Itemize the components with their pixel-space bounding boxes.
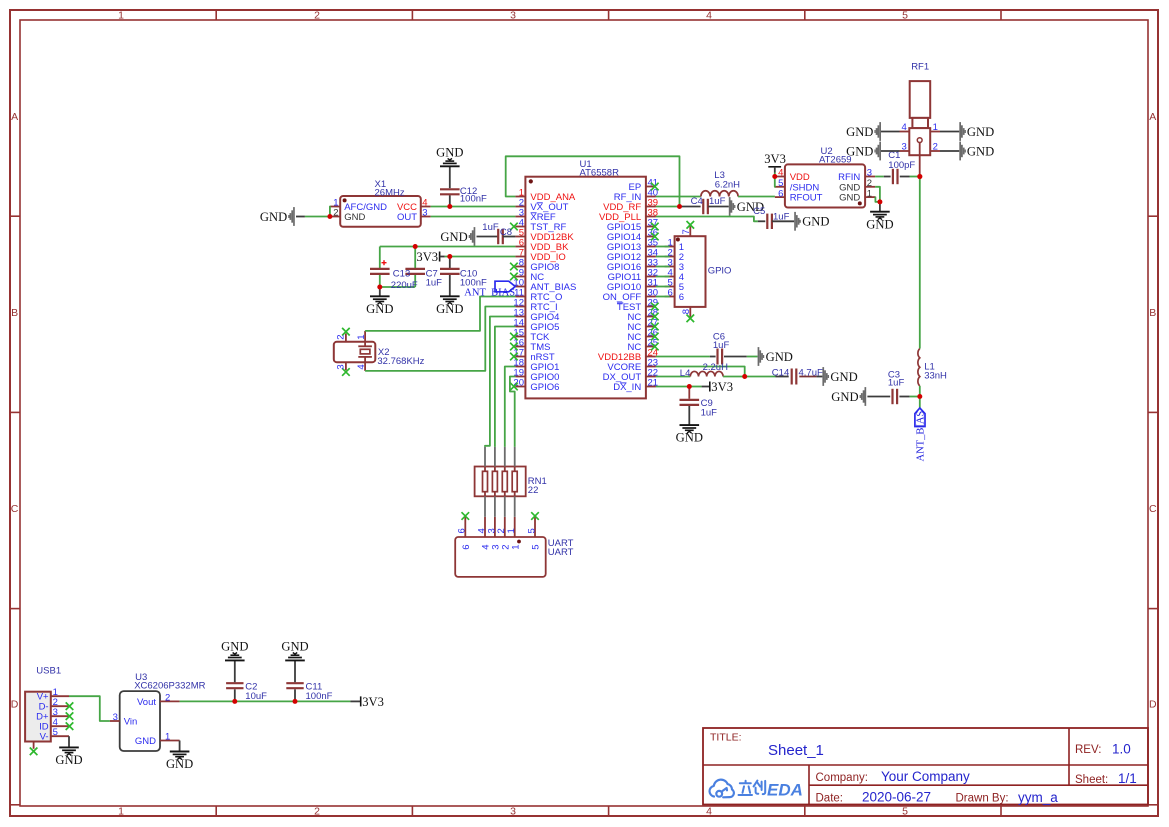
svg-text:6: 6 [461, 545, 472, 550]
svg-text:33nH: 33nH [924, 370, 947, 381]
svg-text:GND: GND [344, 212, 365, 223]
svg-text:GND: GND [831, 390, 858, 404]
svg-text:GND: GND [55, 753, 82, 767]
svg-text:C5: C5 [753, 206, 765, 217]
svg-text:V-: V- [40, 732, 49, 743]
svg-text:AT6558R: AT6558R [580, 168, 620, 179]
svg-text:C: C [11, 503, 19, 515]
svg-text:GND: GND [436, 302, 463, 316]
svg-text:4: 4 [356, 364, 367, 369]
svg-text:1: 1 [933, 122, 938, 133]
svg-text:Sheet:: Sheet: [1075, 774, 1108, 786]
svg-text:UART: UART [548, 547, 574, 558]
svg-text:8: 8 [681, 309, 692, 314]
svg-text:100nF: 100nF [460, 193, 487, 204]
svg-text:GND: GND [830, 370, 857, 384]
svg-text:2: 2 [933, 142, 938, 153]
svg-text:GND: GND [221, 640, 248, 654]
svg-text:2: 2 [314, 9, 320, 21]
svg-text:GND: GND [967, 144, 994, 158]
svg-text:A: A [1149, 111, 1156, 123]
svg-text:1.0: 1.0 [1112, 741, 1131, 756]
svg-text:2020-06-27: 2020-06-27 [862, 790, 931, 805]
svg-text:Date:: Date: [816, 793, 844, 805]
svg-text:USB1: USB1 [36, 665, 61, 676]
svg-text:1uF: 1uF [426, 278, 443, 289]
svg-text:GND: GND [281, 640, 308, 654]
svg-text:2: 2 [165, 693, 170, 704]
svg-text:10uF: 10uF [245, 691, 267, 702]
svg-text:GND: GND [260, 210, 287, 224]
svg-text:32.768KHz: 32.768KHz [377, 356, 424, 367]
svg-text:1uF: 1uF [701, 407, 718, 418]
svg-text:1: 1 [510, 545, 521, 550]
svg-text:Company:: Company: [816, 772, 868, 784]
svg-text:RF1: RF1 [911, 62, 929, 73]
svg-text:100nF: 100nF [306, 691, 333, 702]
svg-text:GND: GND [676, 431, 703, 445]
svg-text:GND: GND [366, 302, 393, 316]
svg-text:Sheet_1: Sheet_1 [768, 742, 824, 759]
svg-text:4: 4 [706, 805, 712, 817]
svg-text:C8: C8 [500, 227, 512, 238]
svg-text:1: 1 [867, 188, 872, 199]
svg-text:1uF: 1uF [773, 212, 790, 223]
svg-text:1: 1 [506, 528, 517, 533]
svg-text:L4: L4 [680, 368, 691, 379]
svg-text:TITLE:: TITLE: [710, 732, 742, 744]
svg-text:6.2nH: 6.2nH [715, 179, 740, 190]
svg-text:2: 2 [335, 335, 346, 340]
svg-text:GND: GND [839, 193, 860, 204]
svg-text:22: 22 [528, 485, 539, 496]
svg-text:GND: GND [436, 146, 463, 160]
svg-text:XC6206P332MR: XC6206P332MR [134, 681, 205, 692]
svg-text:GND: GND [967, 125, 994, 139]
svg-text:1uF: 1uF [482, 222, 499, 233]
svg-text:1uF: 1uF [888, 377, 905, 388]
svg-text:C4: C4 [691, 196, 703, 207]
svg-text:C: C [1149, 503, 1157, 515]
svg-text:220uF: 220uF [391, 280, 418, 291]
svg-text:yym_a: yym_a [1018, 790, 1058, 805]
svg-text:C14: C14 [772, 367, 789, 378]
svg-text:GND: GND [440, 230, 467, 244]
svg-text:RFOUT: RFOUT [790, 193, 823, 204]
svg-text:B: B [1149, 307, 1156, 319]
svg-text:EDA: EDA [767, 781, 803, 800]
svg-text:3V3: 3V3 [362, 695, 384, 709]
svg-text:GND: GND [846, 125, 873, 139]
svg-text:4: 4 [706, 9, 712, 21]
svg-text:3: 3 [335, 364, 346, 369]
svg-text:1: 1 [356, 335, 367, 340]
svg-text:2: 2 [333, 208, 338, 219]
svg-text:GND: GND [802, 215, 829, 229]
svg-text:3: 3 [113, 712, 118, 723]
svg-text:A: A [11, 111, 18, 123]
svg-text:3V3: 3V3 [711, 380, 733, 394]
svg-text:5: 5 [526, 528, 537, 533]
svg-text:1: 1 [118, 805, 124, 817]
svg-text:GPIO6: GPIO6 [530, 382, 559, 393]
svg-text:Drawn By:: Drawn By: [956, 793, 1009, 805]
svg-text:3V3: 3V3 [764, 152, 786, 166]
svg-text:7: 7 [681, 229, 692, 234]
svg-text:GPIO: GPIO [708, 265, 732, 276]
svg-text:5: 5 [53, 727, 58, 738]
svg-text:ANT_BIAS: ANT_BIAS [916, 411, 927, 462]
svg-text:1uF: 1uF [709, 196, 726, 207]
svg-text:4: 4 [902, 122, 907, 133]
svg-text:3: 3 [902, 142, 907, 153]
svg-text:3: 3 [510, 805, 516, 817]
svg-text:D: D [11, 698, 19, 710]
svg-text:GND: GND [166, 757, 193, 771]
svg-text:Your Company: Your Company [881, 769, 970, 784]
svg-text:2.2uH: 2.2uH [703, 362, 728, 373]
svg-text:1/1: 1/1 [1118, 771, 1137, 786]
svg-text:4.7uF: 4.7uF [799, 367, 823, 378]
svg-text:1: 1 [165, 732, 170, 743]
svg-text:2: 2 [314, 805, 320, 817]
svg-text:5: 5 [531, 545, 542, 550]
svg-text:100pF: 100pF [888, 160, 915, 171]
svg-text:6: 6 [679, 292, 684, 303]
svg-text:1uF: 1uF [713, 340, 730, 351]
svg-text:26MHz: 26MHz [375, 187, 405, 198]
svg-text:5: 5 [902, 9, 908, 21]
svg-text:B: B [11, 307, 18, 319]
svg-text:GND: GND [866, 217, 893, 231]
svg-text:5: 5 [902, 805, 908, 817]
svg-text:GND: GND [766, 350, 793, 364]
svg-text:C13: C13 [393, 269, 410, 280]
svg-text:6: 6 [778, 188, 783, 199]
svg-text:3V3: 3V3 [416, 250, 438, 264]
svg-text:3: 3 [422, 208, 427, 219]
svg-text:6: 6 [457, 528, 468, 533]
svg-text:1: 1 [118, 9, 124, 21]
svg-text:REV:: REV: [1075, 744, 1101, 756]
svg-text:GND: GND [846, 144, 873, 158]
svg-text:OUT: OUT [397, 212, 417, 223]
svg-text:Vout: Vout [137, 697, 156, 708]
svg-text:3: 3 [510, 9, 516, 21]
svg-text:Vin: Vin [124, 717, 138, 728]
svg-text:GND: GND [135, 736, 156, 747]
svg-text:D: D [1149, 698, 1157, 710]
svg-text:DX_IN: DX_IN [613, 382, 641, 393]
